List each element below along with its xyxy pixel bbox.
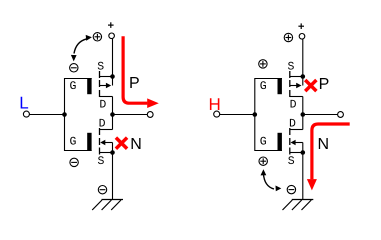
charge symbol plus at supply (H circuit): [284, 33, 292, 41]
wire drain-drain output net (L circuit): [112, 97, 114, 130]
svg-text:H: H: [209, 95, 221, 114]
gate bar Q-N (H circuit): [278, 133, 282, 151]
wire output (L circuit): [113, 114, 148, 116]
red current arrow through P (L circuit): [123, 36, 147, 103]
transistor Q-N N-ch MOSFET channel (H circuit): [289, 128, 291, 135]
svg-text:L: L: [19, 94, 28, 113]
transistor Q-P P-ch MOSFET channel (L circuit): [99, 71, 101, 78]
svg-text:S: S: [288, 155, 295, 168]
svg-text:D: D: [99, 99, 106, 112]
junction output node (H circuit): [301, 112, 306, 117]
svg-text:D: D: [289, 118, 296, 131]
svg-text:S: S: [97, 60, 104, 73]
junction Q-N source-body (L circuit): [110, 150, 115, 155]
svg-text:D: D: [290, 99, 297, 112]
svg-text:P: P: [319, 76, 330, 93]
node V+ supply label (H circuit): [298, 25, 304, 27]
svg-text:N: N: [130, 136, 142, 153]
svg-text:N: N: [318, 136, 330, 153]
wire Q-P drain stub (L circuit): [100, 96, 113, 98]
svg-text:G: G: [260, 80, 267, 93]
node V+ supply label (L circuit): [108, 24, 114, 26]
supply terminal (L circuit): [109, 33, 115, 39]
input terminal (L circuit): [23, 111, 29, 117]
junction gate node (H circuit): [253, 112, 258, 117]
junction Q-P source-body (H circuit): [301, 74, 306, 79]
red current arrow through N (H circuit): [312, 124, 350, 179]
transistor Q-N N-ch MOSFET channel (L circuit): [99, 128, 101, 135]
input terminal (H circuit): [214, 111, 220, 117]
wire input to gate (H circuit): [220, 114, 255, 116]
gate bar Q-P (H circuit): [278, 78, 282, 94]
wire Q-N source to ground (L circuit): [112, 143, 114, 200]
wire supply to Q-P source (L circuit): [112, 39, 114, 86]
transistor Q-P P-ch MOSFET channel (H circuit): [289, 71, 291, 78]
charge symbol minus above gate of Q-P (L circuit): [70, 64, 78, 72]
wire Q-N body stub with arrow (H circuit): [295, 142, 303, 144]
svg-text:S: S: [288, 60, 295, 73]
wire Q-P drain stub (H circuit): [290, 96, 303, 98]
wire Q-N drain stub (H circuit): [290, 129, 303, 131]
wire supply to Q-P source (H circuit): [302, 39, 304, 85]
supply terminal (H circuit): [299, 34, 305, 40]
junction Q-N source-body (H circuit): [301, 150, 306, 155]
ground (L circuit): [102, 199, 124, 201]
output terminal (H circuit): [338, 112, 344, 118]
ground (H circuit): [292, 199, 314, 201]
charge symbol plus above gate of Q-P (H circuit): [259, 60, 267, 68]
junction output node (L circuit): [110, 112, 115, 117]
svg-text:P: P: [129, 75, 140, 92]
svg-text:S: S: [97, 155, 104, 168]
output terminal (L circuit): [147, 112, 153, 118]
gate bar Q-N (L circuit): [87, 133, 91, 151]
gate plate box G (H circuit): [255, 79, 282, 151]
wire Q-P body stub with arrow (L circuit): [100, 85, 107, 87]
svg-text:G: G: [69, 135, 76, 148]
svg-text:D: D: [99, 118, 106, 131]
wire Q-N drain stub (L circuit): [100, 129, 113, 131]
wire Q-N source stub (H circuit): [290, 152, 303, 154]
red X blocked P path (H circuit): [305, 80, 316, 91]
wire input to gate (L circuit): [30, 114, 65, 116]
junction gate node (L circuit): [62, 112, 67, 117]
charge symbol plus at supply (L circuit): [93, 33, 101, 41]
svg-text:G: G: [260, 135, 267, 148]
curved charge-motion arrow (H circuit): [263, 174, 274, 190]
red X blocked N path (L circuit): [116, 138, 127, 149]
svg-text:G: G: [69, 80, 76, 93]
junction Q-P source-body (L circuit): [110, 74, 115, 79]
charge symbol plus below gate of Q-N (H circuit): [259, 157, 267, 165]
charge symbol minus below gate of Q-N (L circuit): [70, 158, 78, 166]
gate plate box G (L circuit): [65, 79, 92, 151]
wire Q-N source to ground (H circuit): [302, 143, 304, 200]
wire drain-drain output net (H circuit): [302, 97, 304, 130]
gate bar Q-P (L circuit): [87, 78, 91, 94]
wire Q-P source stub (L circuit): [100, 76, 113, 78]
charge symbol minus at ground (L circuit): [98, 186, 106, 194]
wire Q-N source stub (L circuit): [100, 152, 113, 154]
wire output (H circuit): [303, 114, 338, 116]
wire Q-P body stub with arrow (H circuit): [290, 85, 297, 87]
charge symbol minus at ground (H circuit): [287, 185, 295, 193]
curved charge-motion arrow (L circuit): [74, 39, 86, 54]
wire Q-P source stub (H circuit): [290, 76, 303, 78]
wire Q-N body stub with arrow (L circuit): [105, 142, 113, 144]
